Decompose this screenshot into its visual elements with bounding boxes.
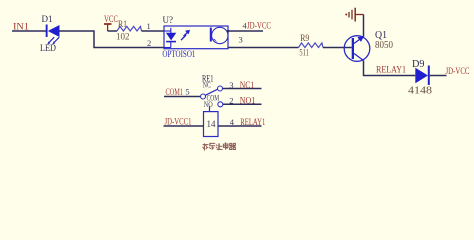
wire IN1 to D1 [12,30,46,32]
wire NC to NC1 [223,88,262,90]
svg-text:NO1: NO1 [240,96,256,106]
svg-text:8050: 8050 [375,40,393,51]
svg-text:D9: D9 [412,59,425,70]
opto internal phototransistor [210,27,230,43]
wire R1 to opto pin1 [142,30,165,32]
opto internal LED [164,28,176,48]
wire JD-VCC1 to coil [164,125,204,127]
svg-text:2: 2 [147,38,151,48]
svg-text:U?: U? [163,15,174,25]
label songle relay (chinese) [203,142,236,150]
diode D9 [408,59,433,97]
relay coil box [204,112,219,137]
relay coil pin stub [209,106,211,111]
wire R9 to Q1 base [323,47,352,49]
relay NO contact [218,102,223,107]
svg-text:3: 3 [239,35,243,45]
power VCC [104,14,118,31]
diode D1 (LED) [40,14,60,53]
svg-text:RELAY1: RELAY1 [376,65,406,75]
svg-text:4148: 4148 [408,85,433,97]
svg-text:VCC: VCC [104,14,118,24]
relay NC contact [218,86,223,91]
svg-text:3: 3 [229,80,233,90]
op-amp U? optoisolator box [162,15,228,59]
resistor R1 [108,19,142,42]
svg-text:COM1: COM1 [166,87,184,97]
resistor R9 [299,33,324,58]
svg-text:NC1: NC1 [240,80,255,90]
svg-text:LED: LED [40,43,56,53]
relay RE1 contacts [202,74,219,109]
svg-text:RELAY1: RELAY1 [240,117,265,127]
svg-text:5: 5 [185,87,189,97]
svg-text:JD-VCC: JD-VCC [446,66,470,76]
svg-text:4: 4 [230,117,235,127]
svg-text:2: 2 [229,95,233,105]
svg-text:IN1: IN1 [13,22,29,32]
svg-text:102: 102 [116,31,130,41]
svg-text:JD-VCC1: JD-VCC1 [165,117,192,127]
pin 4 stub wire [228,30,263,32]
svg-text:R9: R9 [300,33,309,43]
svg-text:1: 1 [147,21,151,31]
relay lever [205,89,218,95]
wire opto pin3 to R9 [228,47,299,49]
wire NO to NO1 [223,103,262,105]
svg-text:511: 511 [299,48,309,58]
wire coil to RELAY1 [218,125,262,127]
ground (rotated power gnd) [345,8,363,22]
svg-text:OPTOISO1: OPTOISO1 [162,49,195,59]
wire COM1 [164,96,200,98]
svg-text:D1: D1 [42,14,53,24]
opto emission arrow [181,30,190,40]
wire Q1 collector to RELAY1 row [364,61,416,76]
wire D9 to JD-VCC [430,75,447,77]
wire D1 to opto pin2 [60,31,165,48]
transistor Q1 [344,30,393,61]
svg-text:JD-VCC: JD-VCC [247,20,271,30]
relay COM contact [201,94,206,99]
svg-text:NC: NC [203,79,211,89]
wire gnd to Q1 emitter [363,15,365,37]
svg-text:NO: NO [204,99,213,109]
svg-text:14: 14 [207,119,217,129]
